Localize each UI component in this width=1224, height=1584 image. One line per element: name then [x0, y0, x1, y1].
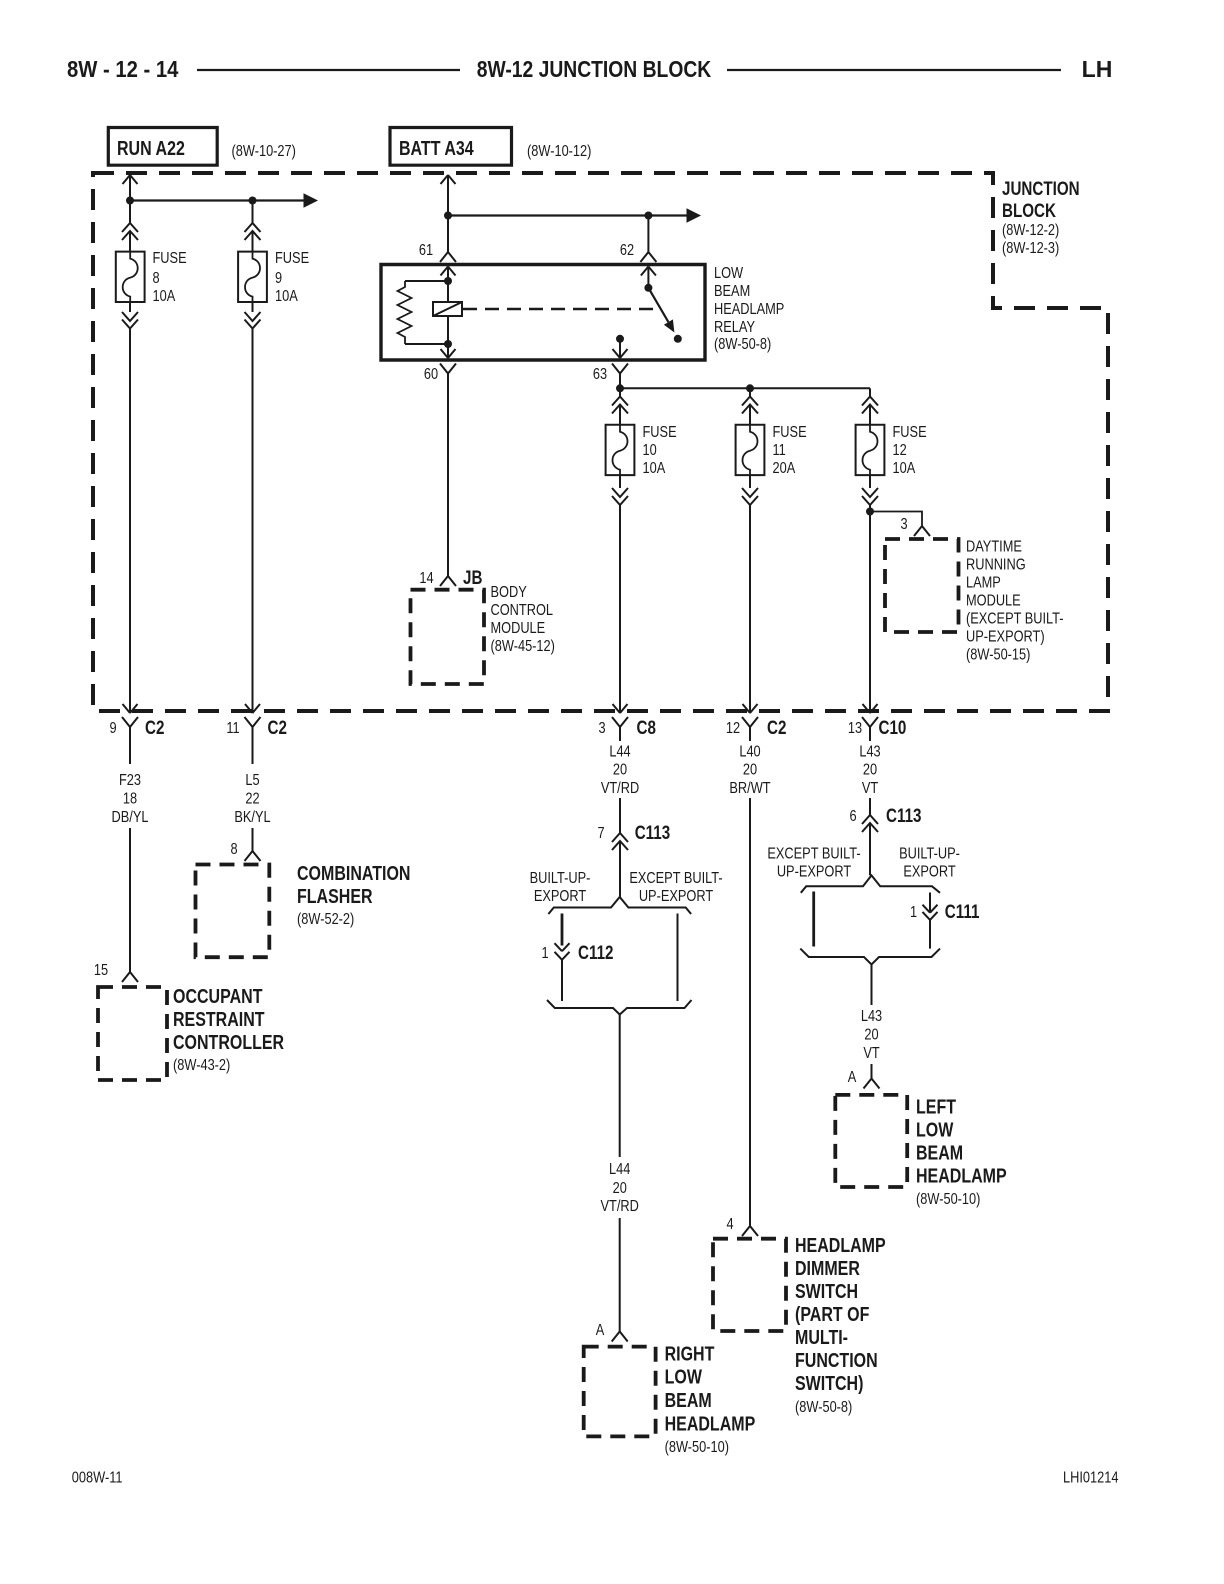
svg-text:HEADLAMP: HEADLAMP	[665, 1413, 756, 1435]
svg-text:BATT A34: BATT A34	[399, 137, 474, 159]
svg-text:C113: C113	[635, 821, 670, 843]
svg-text:FUNCTION: FUNCTION	[795, 1349, 878, 1371]
svg-text:FUSE: FUSE	[643, 424, 677, 442]
svg-text:15: 15	[94, 962, 108, 980]
connector C2 pin 9	[109, 716, 164, 764]
svg-text:COMBINATION: COMBINATION	[297, 862, 410, 884]
svg-text:008W-11: 008W-11	[72, 1469, 123, 1487]
svg-text:JUNCTION: JUNCTION	[1002, 177, 1080, 199]
svg-text:HEADLAMP: HEADLAMP	[795, 1234, 886, 1256]
svg-text:LHI01214: LHI01214	[1063, 1469, 1118, 1487]
wire to headlamp dimmer switch pin 4	[726, 798, 758, 1236]
branch wire built-up-export	[561, 914, 564, 946]
svg-text:4: 4	[726, 1216, 733, 1234]
combination flasher box	[196, 865, 270, 958]
svg-text:L44: L44	[609, 1161, 630, 1179]
svg-text:3: 3	[900, 516, 907, 534]
svg-text:VT: VT	[863, 1045, 879, 1063]
svg-text:BUILT-UP-: BUILT-UP-	[530, 870, 591, 888]
branch wire except built-up-export	[677, 914, 679, 1002]
wire bus row 1 with arrow	[130, 193, 318, 207]
wire to occupant restraint controller pin 15	[94, 828, 138, 982]
connector C112 pin 1	[541, 941, 613, 1001]
svg-text:BLOCK: BLOCK	[1002, 199, 1057, 221]
wire to right low beam headlamp pin A	[596, 1218, 628, 1342]
svg-text:10A: 10A	[643, 460, 666, 478]
svg-text:(8W-50-8): (8W-50-8)	[714, 336, 771, 354]
svg-text:DB/YL: DB/YL	[112, 809, 149, 827]
svg-text:(8W-45-12): (8W-45-12)	[491, 638, 555, 656]
relay pin 61 terminal arrow	[441, 267, 456, 282]
svg-text:(8W-10-27): (8W-10-27)	[232, 143, 296, 161]
svg-text:(PART OF: (PART OF	[795, 1303, 869, 1325]
connector C2 pin 11	[226, 716, 287, 764]
svg-text:OCCUPANT: OCCUPANT	[173, 985, 262, 1007]
wire bus row 2 with arrow	[448, 208, 701, 222]
svg-text:LEFT: LEFT	[916, 1096, 956, 1118]
svg-text:LOW: LOW	[714, 265, 743, 283]
connector C111 pin 1	[910, 893, 980, 949]
svg-text:FUSE: FUSE	[275, 250, 309, 268]
svg-text:C112: C112	[578, 941, 613, 963]
svg-text:C10: C10	[879, 716, 907, 738]
svg-text:L5: L5	[245, 772, 259, 790]
occupant restraint controller box	[98, 987, 167, 1080]
feed box BATT A34	[390, 128, 512, 166]
split brace top left	[548, 897, 691, 914]
daytime running lamp module box	[885, 539, 959, 632]
fuse 10 10A	[606, 424, 677, 478]
svg-text:61: 61	[419, 242, 433, 260]
svg-text:20: 20	[864, 1026, 878, 1044]
svg-text:RIGHT: RIGHT	[665, 1343, 715, 1365]
svg-text:CONTROL: CONTROL	[491, 602, 554, 620]
svg-text:LH: LH	[1082, 56, 1113, 82]
wire bus row 3	[620, 387, 870, 389]
svg-text:12: 12	[893, 442, 907, 460]
wire to left low beam headlamp pin A	[848, 1064, 880, 1089]
wire below fuse 9 down to connector C2	[245, 302, 261, 713]
svg-text:SWITCH): SWITCH)	[795, 1372, 863, 1394]
wire coil to resistor top	[405, 280, 448, 282]
fuse 12 10A	[856, 424, 927, 478]
svg-text:LAMP: LAMP	[966, 574, 1001, 592]
wire RUN A22 into junction block with up arrow	[123, 175, 138, 201]
combination flasher label	[297, 862, 410, 928]
wire label L43 20 VT lower	[861, 1008, 882, 1063]
wire merge to left low beam	[871, 965, 873, 1006]
junction block label	[1002, 177, 1080, 257]
svg-text:LOW: LOW	[665, 1366, 703, 1388]
svg-text:(EXCEPT BUILT-: (EXCEPT BUILT-	[966, 610, 1064, 628]
svg-text:11: 11	[226, 720, 239, 738]
svg-text:1: 1	[910, 904, 917, 922]
daytime running lamp module label	[966, 538, 1064, 664]
connector C113 pin 7	[597, 798, 670, 897]
wire below fuse 8 down to connector C2	[122, 302, 138, 713]
svg-text:FUSE: FUSE	[153, 250, 187, 268]
split brace bottom left	[547, 1000, 692, 1015]
split brace top right	[801, 875, 940, 892]
svg-text:7: 7	[597, 825, 604, 843]
svg-text:(8W-50-10): (8W-50-10)	[665, 1439, 729, 1457]
label built-up-export right	[899, 845, 960, 881]
svg-text:BEAM: BEAM	[714, 283, 750, 301]
branch wire except built-up-export right	[812, 892, 815, 947]
label built-up-export left	[530, 870, 591, 906]
relay pin 60 terminal arrow	[441, 344, 456, 358]
feed box RUN A22	[108, 128, 217, 166]
split brace bottom right	[800, 949, 940, 965]
svg-text:10A: 10A	[153, 288, 176, 306]
low beam headlamp relay box	[381, 265, 705, 361]
svg-text:(8W-52-2): (8W-52-2)	[297, 911, 354, 929]
svg-text:RUN A22: RUN A22	[117, 137, 185, 159]
headlamp dimmer switch label	[795, 1234, 886, 1416]
relay coil bottom node	[444, 340, 452, 348]
svg-text:62: 62	[620, 242, 634, 260]
svg-text:SWITCH: SWITCH	[795, 1280, 858, 1302]
low beam headlamp relay label	[714, 265, 784, 354]
label except built-up-export right	[767, 845, 860, 881]
wire to fuse 11 upper connector	[742, 388, 758, 424]
svg-text:BEAM: BEAM	[916, 1142, 963, 1164]
svg-text:MODULE: MODULE	[491, 620, 546, 638]
svg-text:VT: VT	[862, 780, 878, 798]
svg-text:10: 10	[643, 442, 657, 460]
wire to fuse 12 upper connector	[862, 388, 878, 424]
svg-text:20: 20	[743, 761, 757, 779]
wire to relay pin 62	[620, 216, 657, 263]
svg-text:C8: C8	[637, 716, 657, 738]
svg-text:L43: L43	[861, 1008, 882, 1026]
headlamp dimmer switch box	[713, 1239, 786, 1331]
wire to fuse 8 upper connector	[122, 201, 138, 252]
wire label L44 20 VT/RD lower	[601, 1161, 639, 1216]
relay control dashed link	[463, 308, 658, 310]
svg-text:(8W-10-12): (8W-10-12)	[527, 143, 591, 161]
node bus BATT A34	[444, 212, 452, 220]
svg-text:20: 20	[863, 761, 877, 779]
svg-text:F23: F23	[119, 772, 141, 790]
svg-text:A: A	[848, 1069, 857, 1087]
svg-text:EXCEPT BUILT-: EXCEPT BUILT-	[767, 845, 860, 863]
svg-text:BK/YL: BK/YL	[234, 809, 270, 827]
svg-text:12: 12	[726, 720, 740, 738]
svg-text:HEADLAMP: HEADLAMP	[916, 1165, 1007, 1187]
fuse 8 10A	[116, 250, 187, 306]
wire below fuse 10 down to connector C8	[612, 475, 628, 713]
svg-text:10A: 10A	[275, 288, 298, 306]
svg-text:(8W-12-3): (8W-12-3)	[1002, 240, 1059, 258]
svg-text:(8W-12-2): (8W-12-2)	[1002, 222, 1059, 240]
svg-text:10A: 10A	[893, 460, 916, 478]
svg-text:FUSE: FUSE	[773, 424, 807, 442]
relay pin 60 fork	[424, 364, 456, 384]
svg-text:C113: C113	[886, 804, 921, 826]
svg-text:FUSE: FUSE	[893, 424, 927, 442]
label except built-up-export left	[629, 870, 722, 906]
node bus RUN A22	[126, 197, 134, 205]
svg-text:63: 63	[593, 366, 607, 384]
right low beam headlamp box	[584, 1347, 656, 1437]
svg-text:UP-EXPORT: UP-EXPORT	[777, 863, 851, 881]
svg-text:(8W-50-15): (8W-50-15)	[966, 646, 1030, 664]
wire label L5 22 BK/YL	[234, 772, 270, 827]
relay coil top node	[444, 277, 452, 285]
wire branch to daytime running lamp module pin 3	[870, 512, 930, 537]
connector C113 pin 6	[849, 798, 921, 875]
wire BATT A34 into junction block with up arrow	[441, 175, 456, 216]
svg-text:1: 1	[541, 945, 548, 963]
fuse 9 10A	[238, 250, 309, 306]
svg-text:8: 8	[153, 270, 160, 288]
svg-text:8: 8	[230, 841, 237, 859]
svg-text:L44: L44	[609, 743, 630, 761]
wire resistor bottom to coil	[405, 343, 448, 345]
svg-text:L40: L40	[739, 743, 760, 761]
svg-text:20: 20	[613, 761, 627, 779]
svg-text:JB: JB	[463, 566, 482, 588]
relay switch arm	[648, 288, 674, 333]
svg-text:RUNNING: RUNNING	[966, 556, 1026, 574]
svg-text:L43: L43	[859, 743, 880, 761]
svg-text:8W - 12 - 14: 8W - 12 - 14	[67, 56, 178, 83]
wire below fuse 11 down to connector C2	[742, 475, 758, 713]
fuse 11 20A	[736, 424, 807, 478]
node bus fuse 10	[616, 384, 624, 392]
wire to fuse 10 upper connector	[612, 388, 628, 424]
relay pin 63 terminal arrow	[613, 339, 628, 358]
svg-text:BR/WT: BR/WT	[729, 780, 770, 798]
svg-text:60: 60	[424, 366, 438, 384]
svg-text:14: 14	[419, 570, 433, 588]
svg-text:9: 9	[275, 270, 282, 288]
wire label L40 20 BR/WT	[729, 743, 770, 797]
relay pin 63 contact node	[616, 335, 624, 343]
svg-text:(8W-50-10): (8W-50-10)	[916, 1191, 980, 1209]
occupant restraint controller label	[173, 985, 284, 1074]
svg-text:A: A	[596, 1322, 605, 1340]
svg-text:RESTRAINT: RESTRAINT	[173, 1008, 265, 1030]
header rule right	[727, 69, 1061, 71]
node relay pin 62 tap	[644, 212, 652, 220]
svg-text:VT/RD: VT/RD	[601, 1198, 639, 1216]
svg-text:BUILT-UP-: BUILT-UP-	[899, 845, 960, 863]
wire to fuse 9 upper connector	[245, 201, 261, 252]
svg-text:FLASHER: FLASHER	[297, 885, 373, 907]
svg-text:MODULE: MODULE	[966, 592, 1021, 610]
wire fuse 12 down to connector C10	[863, 512, 878, 714]
svg-text:C2: C2	[767, 716, 786, 738]
wire to relay pin 61	[419, 216, 456, 263]
svg-text:DAYTIME: DAYTIME	[966, 538, 1022, 556]
wire relay pin 60 to body control module pin 14	[419, 374, 482, 589]
right low beam headlamp label	[665, 1343, 756, 1457]
node fuse 9 tap	[249, 197, 257, 205]
node daytime running lamp tap	[866, 508, 874, 516]
svg-text:6: 6	[849, 808, 856, 826]
relay coil	[433, 281, 462, 344]
header rule left	[197, 69, 460, 71]
svg-text:11: 11	[773, 442, 786, 460]
svg-text:CONTROLLER: CONTROLLER	[173, 1031, 284, 1053]
svg-text:C2: C2	[145, 716, 164, 738]
svg-text:C111: C111	[945, 900, 980, 922]
left low beam headlamp label	[916, 1096, 1007, 1209]
connector C8 pin 3	[598, 716, 656, 741]
svg-text:VT/RD: VT/RD	[601, 780, 639, 798]
node bus fuse 11	[746, 384, 754, 392]
body control module label	[491, 584, 555, 656]
svg-text:20: 20	[613, 1180, 627, 1198]
svg-text:13: 13	[848, 720, 862, 738]
svg-text:18: 18	[123, 790, 137, 808]
svg-text:HEADLAMP: HEADLAMP	[714, 301, 784, 319]
svg-text:MULTI-: MULTI-	[795, 1326, 848, 1348]
svg-text:20A: 20A	[773, 460, 796, 478]
left low beam headlamp box	[835, 1095, 907, 1187]
svg-text:EXPORT: EXPORT	[534, 888, 586, 906]
svg-text:RELAY: RELAY	[714, 319, 755, 337]
svg-text:EXCEPT BUILT-: EXCEPT BUILT-	[629, 870, 722, 888]
svg-text:DIMMER: DIMMER	[795, 1257, 860, 1279]
svg-text:(8W-43-2): (8W-43-2)	[173, 1057, 230, 1075]
svg-text:BEAM: BEAM	[665, 1389, 712, 1411]
svg-text:UP-EXPORT: UP-EXPORT	[639, 888, 713, 906]
wire label F23 18 DB/YL	[112, 772, 149, 827]
relay pin 63 fork	[593, 364, 628, 384]
svg-text:EXPORT: EXPORT	[903, 863, 955, 881]
svg-text:8W-12 JUNCTION BLOCK: 8W-12 JUNCTION BLOCK	[477, 58, 712, 83]
relay resistor	[398, 281, 412, 344]
wire relay pin 63 to bus	[619, 374, 621, 389]
wire to combination flasher pin 8	[230, 828, 260, 861]
junction block dashed boundary	[93, 173, 1108, 711]
svg-text:BODY: BODY	[491, 584, 528, 602]
connector C2 pin 12	[726, 716, 787, 741]
svg-text:UP-EXPORT): UP-EXPORT)	[966, 628, 1045, 646]
wire merge to right low beam	[619, 1015, 621, 1158]
svg-text:LOW: LOW	[916, 1119, 954, 1141]
svg-text:9: 9	[109, 720, 116, 738]
wire below fuse 12	[862, 475, 878, 511]
svg-text:(8W-50-8): (8W-50-8)	[795, 1399, 852, 1417]
connector C10 pin 13	[848, 716, 906, 741]
relay switch pivot node	[644, 284, 652, 292]
wire label L44 20 VT/RD	[601, 743, 639, 797]
wire label L43 20 VT	[859, 743, 880, 797]
body control module box	[411, 590, 485, 684]
relay pin 62 terminal arrow	[641, 267, 656, 288]
relay switch open contact node	[674, 335, 682, 343]
svg-text:3: 3	[598, 720, 605, 738]
svg-text:C2: C2	[268, 716, 287, 738]
svg-text:22: 22	[245, 790, 259, 808]
